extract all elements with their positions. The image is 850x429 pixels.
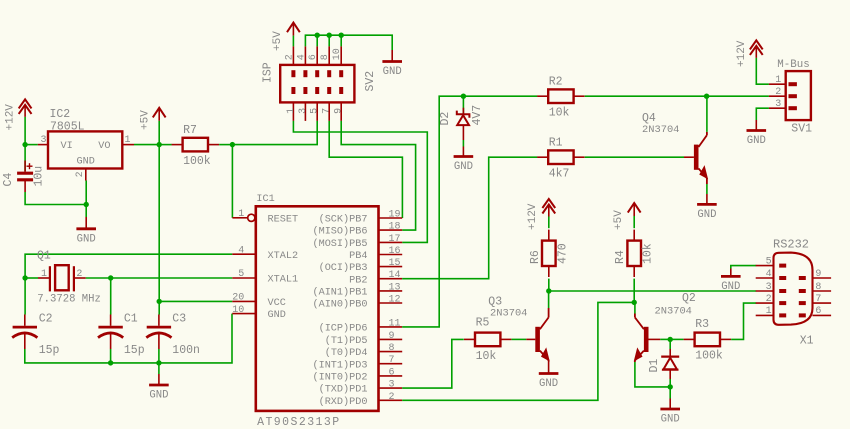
svg-text:(AIN1)PB1: (AIN1)PB1 (312, 287, 367, 299)
svg-text:(INT0)PD2: (INT0)PD2 (312, 372, 367, 384)
svg-text:7: 7 (322, 108, 333, 114)
junction IC2 GND / C4 node (84, 202, 89, 207)
wire +12V to SV1 pin 1 (756, 58, 769, 84)
svg-text:(AIN0)PB0: (AIN0)PB0 (312, 299, 367, 311)
capacitor C4 (polarized) (17, 145, 33, 192)
junction crystal pin1 / C2 node (22, 275, 27, 280)
wire IC2 VO to +5V node (134, 144, 159, 146)
capacitor C2 (12, 315, 37, 350)
svg-text:VI: VI (61, 141, 73, 152)
svg-text:Q1: Q1 (37, 250, 51, 263)
wire ISP pins 4,6,8,10 ground rail (305, 35, 392, 50)
ground of IC2/C4 (76, 217, 96, 245)
wire IC1 PB2 to R1 (402, 157, 537, 279)
svg-text:(MISO)PB6: (MISO)PB6 (312, 226, 367, 238)
svg-text:2: 2 (766, 294, 772, 305)
svg-text:C1: C1 (124, 312, 138, 325)
wire +12V arrow to R6 (548, 217, 550, 229)
junction D2 / R2 node (461, 94, 466, 99)
svg-text:PB4: PB4 (349, 251, 367, 262)
svg-text:2N3704: 2N3704 (655, 306, 692, 318)
svg-text:+12V: +12V (527, 203, 539, 230)
ground of crystal caps (149, 374, 169, 402)
+12V supply arrow M-Bus supply (750, 40, 763, 58)
svg-text:100n: 100n (172, 344, 200, 357)
wire Q3 collector to node (548, 291, 550, 308)
svg-text:D2: D2 (439, 112, 452, 126)
svg-text:2: 2 (389, 392, 395, 403)
svg-text:C2: C2 (39, 312, 53, 325)
junction C1 to ground rail (108, 360, 113, 365)
svg-text:AT90S2313P: AT90S2313P (257, 416, 341, 429)
svg-text:RESET: RESET (268, 214, 299, 225)
wire ground rail under caps (25, 314, 232, 363)
svg-text:XTAL2: XTAL2 (268, 251, 299, 262)
svg-text:+5V: +5V (272, 31, 284, 51)
svg-text:1: 1 (238, 209, 244, 220)
svg-text:GND: GND (721, 281, 740, 293)
wire XTAL2 from IC1 pin4 (25, 254, 232, 278)
svg-text:VCC: VCC (268, 298, 286, 309)
svg-text:3: 3 (775, 99, 781, 110)
wire R6 to Q3 collector node (548, 279, 550, 291)
svg-text:17: 17 (389, 234, 401, 245)
wire C4 to GND node (25, 192, 86, 205)
svg-text:1: 1 (286, 108, 297, 114)
wire IC1 TXD/PD1 to R5 (402, 339, 464, 388)
wire ISP pin 10 to ground rail (340, 35, 342, 46)
svg-text:7.3728 MHz: 7.3728 MHz (37, 294, 101, 306)
svg-text:19: 19 (389, 210, 401, 221)
svg-text:GND: GND (454, 161, 473, 173)
wire node to ground symbol (85, 205, 87, 218)
diode D1 (661, 339, 679, 387)
svg-text:10k: 10k (642, 243, 655, 264)
wire R2 to M-Bus node (585, 95, 707, 97)
svg-text:2: 2 (775, 87, 781, 98)
connector X1 RS232 DSUB-9 (756, 253, 831, 325)
svg-text:10: 10 (232, 305, 244, 316)
svg-text:D1: D1 (648, 359, 661, 373)
svg-text:470: 470 (556, 243, 569, 264)
svg-text:+12V: +12V (736, 40, 748, 67)
svg-text:C4: C4 (2, 173, 15, 187)
wire ISP pin9 MISO to IC1 PB6 (341, 121, 415, 230)
svg-text:8: 8 (389, 343, 395, 354)
svg-text:GND: GND (747, 135, 766, 147)
resistor R6 (542, 230, 556, 277)
svg-text:ISP: ISP (262, 62, 275, 83)
wire rail to ground symbol (158, 363, 160, 374)
svg-text:2: 2 (75, 171, 86, 177)
svg-text:M-Bus: M-Bus (777, 59, 809, 71)
resistor R5 (464, 333, 511, 347)
wire XTAL1 node to IC1 pin5 (111, 277, 233, 279)
junction +12V / C4 / IC2-VI node (22, 142, 27, 147)
svg-text:(MOSI)PB5: (MOSI)PB5 (312, 238, 367, 250)
svg-text:100k: 100k (183, 155, 211, 168)
svg-text:(TXD)PD1: (TXD)PD1 (319, 384, 368, 396)
svg-text:Q3: Q3 (488, 296, 502, 309)
svg-text:10: 10 (332, 48, 343, 60)
ground of X1 (721, 269, 741, 294)
svg-text:1: 1 (41, 269, 47, 280)
wire C3 top (158, 301, 160, 314)
junction ISP ground rail at x=317.2 (315, 33, 320, 38)
svg-text:15p: 15p (124, 344, 145, 357)
connector SV2 ISP header (280, 46, 354, 121)
svg-text:GND: GND (77, 233, 96, 245)
wire RESET node down to IC1 RESET pin (231, 145, 233, 218)
capacitor C3 (146, 315, 171, 350)
microcontroller IC1 AT90S2313P body (232, 206, 402, 411)
+5V supply arrow Q2 pull-up supply (628, 203, 641, 216)
svg-text:9: 9 (815, 269, 821, 280)
svg-text:(ICP)PD6: (ICP)PD6 (319, 323, 368, 335)
wire IC1 ICP/PD6 to D2-R2 node (402, 96, 463, 327)
svg-text:(OCI)PB3: (OCI)PB3 (319, 262, 368, 274)
svg-text:10k: 10k (476, 350, 497, 363)
wire +5V rail down to VCC of IC1 (159, 145, 232, 302)
connector SV1 M-Bus (769, 71, 811, 120)
svg-text:(T0)PD4: (T0)PD4 (325, 347, 368, 359)
svg-text:GND: GND (697, 209, 716, 221)
ground of SV1 (747, 120, 767, 147)
junction Q2 base / D1 / R3 node (668, 337, 673, 342)
wire node to ground (669, 387, 671, 399)
svg-text:SV2: SV2 (364, 71, 377, 92)
svg-text:GND: GND (661, 414, 680, 426)
resistor R2 (537, 89, 584, 103)
+12V supply arrow PS input (19, 99, 32, 144)
svg-text:(RXD)PD0: (RXD)PD0 (319, 396, 368, 408)
svg-text:9: 9 (334, 108, 345, 114)
junction VCC / C3 node (157, 299, 162, 304)
+5V supply arrow regulator output (153, 108, 166, 145)
svg-text:100k: 100k (695, 349, 723, 362)
svg-text:6: 6 (815, 306, 821, 317)
svg-text:2: 2 (76, 269, 82, 280)
junction ISP ground rail at x=341.2 (339, 33, 344, 38)
ground of Q3 (539, 374, 559, 391)
svg-text:15: 15 (389, 258, 401, 269)
ground of D2 (454, 147, 474, 174)
wire ISP pin 8 to ground rail (328, 35, 330, 46)
svg-text:11: 11 (389, 318, 401, 329)
svg-text:X1: X1 (800, 335, 814, 348)
wire R5 to Q3 base (512, 338, 527, 340)
svg-text:(INT1)PD3: (INT1)PD3 (312, 359, 367, 371)
svg-text:VO: VO (98, 141, 110, 152)
svg-text:3: 3 (389, 380, 395, 391)
wire C2 top (24, 278, 26, 315)
wire R4 to RXD node (633, 279, 635, 303)
svg-text:1: 1 (775, 75, 781, 86)
svg-text:IC1: IC1 (256, 194, 274, 205)
wire Q2 emitter to D1 bottom node (635, 362, 670, 387)
wire X1 pin 5 to ground (731, 266, 756, 269)
wire IC2 GND pin to node (85, 181, 87, 205)
svg-text:14: 14 (389, 270, 401, 281)
svg-text:9: 9 (389, 331, 395, 342)
resistor R3 (684, 333, 731, 347)
wire node to SV1 pin 2 (707, 95, 769, 97)
svg-text:R1: R1 (549, 137, 563, 150)
junction +5V rail node (157, 142, 162, 147)
wire ISP pin 6 to ground rail (316, 35, 318, 46)
wire +5V node to R7 (159, 144, 172, 146)
svg-text:R5: R5 (476, 317, 490, 330)
svg-text:GND: GND (77, 157, 95, 168)
svg-text:4: 4 (238, 245, 244, 256)
svg-text:(SCK)PB7: (SCK)PB7 (319, 214, 368, 226)
svg-text:20: 20 (232, 293, 244, 304)
svg-text:10k: 10k (549, 107, 570, 120)
svg-text:4: 4 (766, 269, 772, 280)
wire +12V node to IC2 VI pin (25, 144, 38, 146)
ground of D1/Q2 (660, 399, 680, 426)
transistor Q4 2N3704 (684, 132, 708, 184)
wire R7 to RESET node (219, 144, 232, 146)
resistor R4 (627, 230, 641, 277)
ground of ISP (382, 50, 402, 78)
junction R4 / Q2 collector / RXD node (632, 300, 637, 305)
junction R6 / Q3 / X1-3 node (546, 288, 551, 293)
crystal Q1 7.3728 MHz (25, 265, 111, 291)
+5V supply arrow ISP supply (287, 23, 300, 47)
svg-text:3: 3 (766, 282, 772, 293)
svg-text:6: 6 (308, 54, 319, 60)
svg-text:15p: 15p (39, 344, 60, 357)
wire Q2 base to D1 node (660, 338, 670, 340)
svg-text:IC2: IC2 (50, 108, 71, 121)
svg-text:12: 12 (389, 295, 401, 306)
junction C3 to ground rail (156, 360, 161, 365)
svg-text:PB2: PB2 (349, 275, 367, 286)
svg-text:7: 7 (389, 355, 395, 366)
svg-text:3: 3 (298, 108, 309, 114)
svg-text:5: 5 (238, 269, 244, 280)
svg-text:1: 1 (766, 306, 772, 317)
svg-text:SV1: SV1 (791, 122, 812, 135)
svg-text:+5V: +5V (613, 210, 625, 230)
svg-text:16: 16 (389, 246, 401, 257)
svg-text:+12V: +12V (4, 104, 16, 131)
svg-text:GND: GND (383, 66, 402, 78)
wire D2 node to R2 (463, 95, 537, 97)
wire node to X1 pin 3 (549, 290, 756, 292)
svg-text:+5V: +5V (139, 110, 151, 130)
wire ISP pin1 MOSI to IC1 PB5 (293, 121, 427, 242)
svg-text:Q2: Q2 (682, 292, 696, 305)
svg-text:GND: GND (539, 378, 558, 390)
wire SV1 pin 3 to ground (756, 108, 769, 120)
svg-text:2: 2 (284, 54, 295, 60)
svg-text:R6: R6 (529, 250, 542, 264)
svg-text:1: 1 (125, 135, 131, 146)
svg-text:C3: C3 (172, 312, 186, 325)
wire Q4 emitter to ground (706, 184, 708, 194)
junction R2 / Q4 / SV1-2 node (704, 94, 709, 99)
wire ISP pin5 RESET to R7 node (232, 121, 317, 145)
transistor Q2 2N3704 (mirrored) (634, 314, 660, 363)
wire C1 bottom to rail (110, 349, 112, 363)
svg-text:RS232: RS232 (773, 238, 809, 252)
wire IC1 RXD/PD0 to node (402, 302, 634, 400)
wire C3 bottom to rail (158, 349, 160, 363)
zener diode D2 (457, 96, 470, 146)
svg-text:18: 18 (389, 222, 401, 233)
capacitor C1 (98, 315, 123, 350)
wire R3 to X1 pin 2 (731, 303, 756, 339)
svg-text:5: 5 (310, 108, 321, 114)
svg-text:(T1)PD5: (T1)PD5 (325, 335, 368, 347)
svg-text:6: 6 (389, 367, 395, 378)
junction D1 bottom / Q2 emitter node (668, 384, 673, 389)
svg-text:4: 4 (296, 54, 307, 60)
svg-text:R2: R2 (549, 76, 563, 89)
wire +5V arrow to R4 (633, 216, 635, 228)
svg-text:3: 3 (40, 135, 46, 146)
wire R1 to Q4 base (585, 156, 684, 158)
svg-text:7805L: 7805L (50, 120, 85, 133)
svg-text:R7: R7 (183, 124, 197, 137)
junction crystal pin2 / C1 node (108, 275, 113, 280)
svg-text:8: 8 (320, 54, 331, 60)
wire C1 top (110, 278, 112, 315)
voltage regulator IC2 7805L (38, 131, 134, 180)
wire Q4 collector to M-Bus node (706, 96, 708, 132)
svg-text:13: 13 (389, 282, 401, 293)
svg-text:R4: R4 (614, 250, 627, 264)
svg-text:7: 7 (815, 294, 821, 305)
wire ISP pin7 SCK to IC1 PB7 (329, 121, 402, 218)
ground of Q4 (697, 194, 717, 221)
svg-text:4V7: 4V7 (471, 105, 484, 126)
wire Q3 emitter to ground (548, 360, 550, 372)
wire D1 node to R3 (670, 338, 683, 340)
svg-text:8: 8 (815, 282, 821, 293)
wire Q2 collector to node (634, 302, 636, 313)
resistor R1 (537, 150, 584, 164)
junction RESET net node at R7 (230, 142, 235, 147)
junction ISP ground rail at x=329.2 (327, 33, 332, 38)
svg-text:GND: GND (268, 310, 286, 321)
svg-text:5: 5 (766, 256, 772, 267)
transistor Q3 2N3704 (526, 308, 549, 361)
svg-text:2N3704: 2N3704 (490, 308, 527, 320)
svg-text:R3: R3 (695, 318, 709, 331)
svg-text:GND: GND (149, 390, 168, 402)
resistor R7 (172, 138, 219, 152)
svg-text:XTAL1: XTAL1 (268, 275, 299, 286)
svg-text:4k7: 4k7 (549, 168, 570, 181)
+12V supply arrow Q3 collector supply (542, 199, 555, 217)
svg-text:10u: 10u (33, 166, 46, 187)
svg-text:2N3704: 2N3704 (642, 124, 679, 136)
